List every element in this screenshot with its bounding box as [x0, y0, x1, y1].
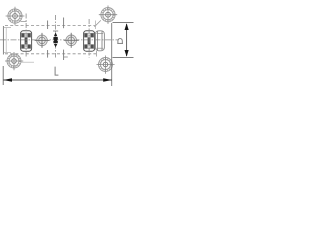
node bullseye right — [64, 33, 79, 48]
dimension D arrow down — [125, 50, 129, 57]
wire left end inner edge — [5, 28, 7, 53]
lug at right end — [95, 31, 104, 51]
wire tangent from bottom-left circle — [20, 61, 34, 63]
wire hourglass top tick — [53, 30, 58, 32]
dimension L line — [3, 79, 112, 81]
dimension L arrow right — [103, 78, 112, 82]
wire tangent from top-left circle — [21, 21, 27, 23]
wire hidden dashed top line of body — [5, 25, 95, 27]
dimension L left extension — [2, 66, 4, 85]
label D (rotated) — [117, 39, 123, 44]
dimension D bottom extension — [113, 56, 134, 58]
wire tick at right section edge — [64, 56, 68, 58]
wire horizontal centerline — [0, 39, 118, 41]
node top-right bolt circle group — [99, 6, 117, 24]
node bottom-left bolt circle group — [5, 52, 23, 70]
coupling technical drawing — [0, 0, 136, 102]
dimension L arrow left — [3, 78, 12, 82]
dimension D arrow up — [125, 23, 129, 30]
node top-left bolt circle group — [6, 7, 25, 25]
wire center section edge left — [47, 21, 49, 30]
wire center section edge right — [63, 18, 65, 29]
bolt assembly left (U1) — [21, 31, 32, 51]
dimension D line — [126, 24, 128, 56]
node bottom-right bolt circle group — [97, 56, 115, 74]
wire hidden dashed bottom line of body — [5, 53, 96, 55]
bolt spool symbol (hourglass) — [54, 32, 57, 36]
node bullseye left — [35, 33, 50, 48]
wire vertical stub top-right — [95, 21, 97, 30]
dimension D top extension — [113, 22, 134, 24]
wire right end edge + L extension — [111, 23, 113, 86]
wire hourglass centerline — [55, 15, 57, 58]
wire diagonal tangent top-right — [94, 20, 100, 26]
wire lug lower stub — [96, 51, 98, 57]
wire left top corner stub — [3, 27, 11, 29]
label L — [55, 67, 58, 76]
bolt assembly right (U2) — [84, 31, 95, 51]
wire centerline of right assembly — [88, 19, 90, 58]
wire centerline of left assembly — [25, 14, 27, 58]
wire left bottom corner stub — [3, 51, 11, 53]
wire left end edge — [2, 26, 4, 55]
